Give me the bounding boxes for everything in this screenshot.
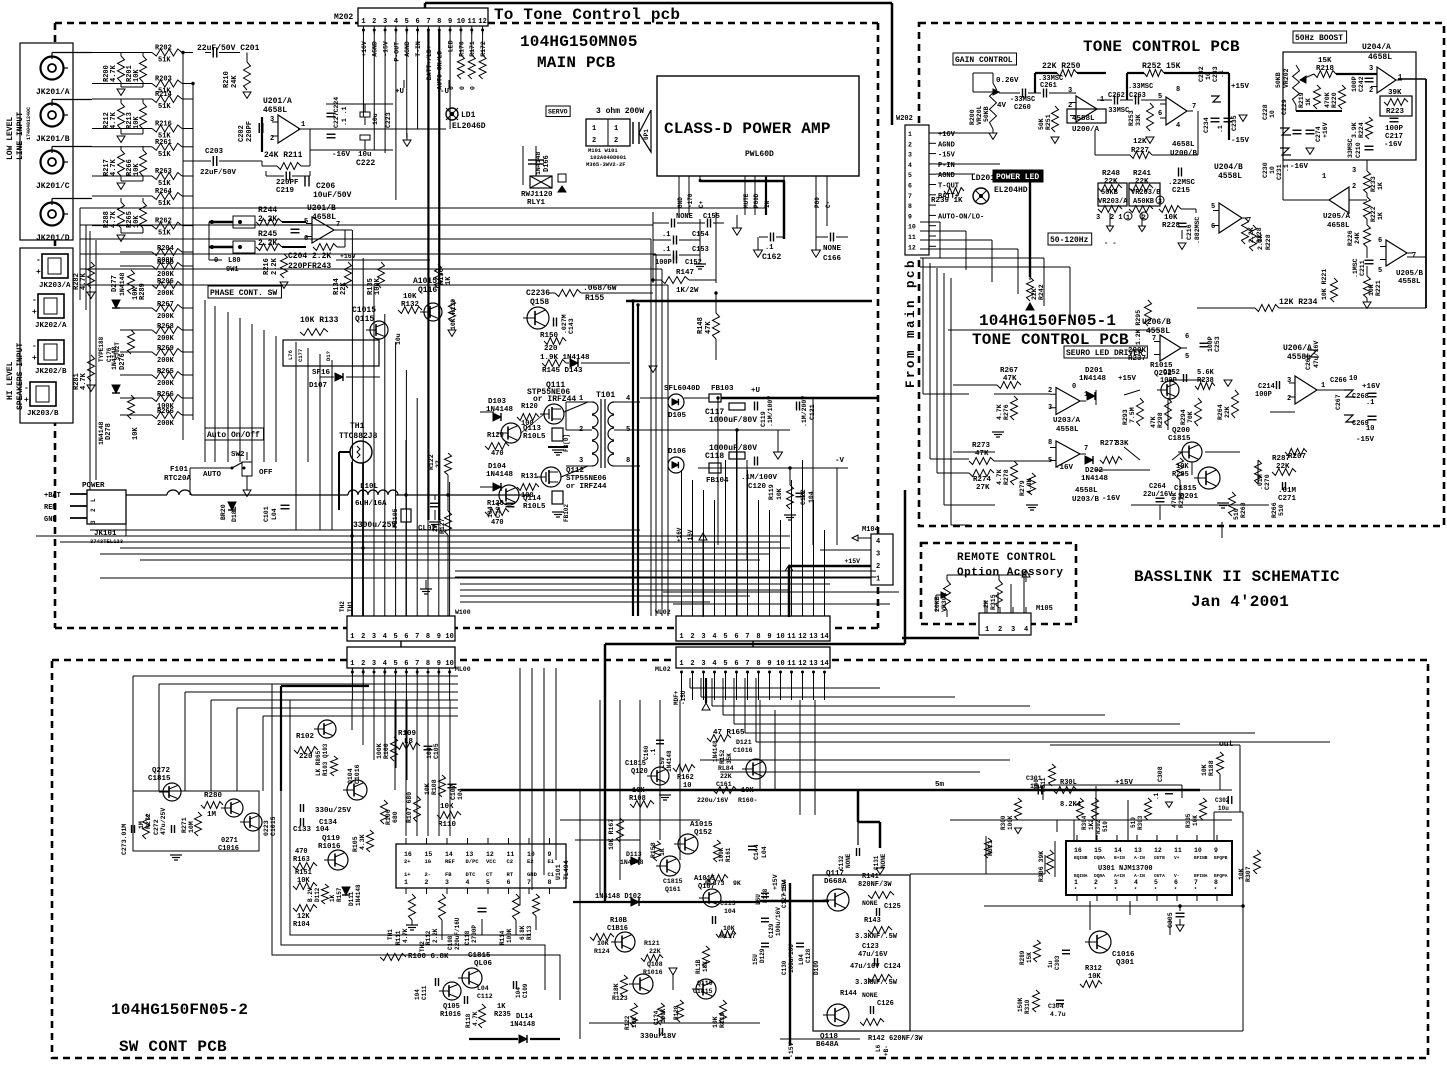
svg-text:1: 1 (1074, 879, 1078, 886)
svg-text:TH1: TH1 (387, 929, 394, 940)
svg-text:M202: M202 (334, 13, 353, 22)
svg-text:1: 1 (1322, 173, 1326, 181)
svg-text:10K R167: 10K R167 (608, 819, 615, 850)
svg-text:5: 5 (393, 660, 397, 668)
svg-text:R10B: R10B (610, 917, 628, 925)
svg-text:C2: C2 (507, 858, 514, 865)
svg-text:R202: R202 (155, 45, 172, 53)
svg-text:U203/B: U203/B (1072, 496, 1100, 504)
svg-text:C216: C216 (1186, 224, 1193, 240)
svg-text:4.7K: 4.7K (80, 272, 88, 290)
svg-text:RLY1: RLY1 (527, 199, 546, 207)
svg-text:BQINA: BQINA (1074, 873, 1088, 879)
svg-text:AUTO-ON/LD-: AUTO-ON/LD- (437, 47, 444, 90)
svg-text:-15V: -15V (383, 41, 390, 57)
svg-text:15K: 15K (1026, 952, 1033, 963)
svg-text:R305: R305 (1185, 813, 1192, 828)
svg-text:-16V: -16V (332, 151, 351, 159)
svg-text:2.2K: 2.2K (432, 928, 439, 943)
svg-text:C112: C112 (477, 993, 493, 1000)
svg-text:1: 1 (361, 18, 365, 26)
svg-text:104: 104 (724, 908, 736, 915)
svg-text:R239 1K: R239 1K (931, 197, 963, 205)
svg-text:200K: 200K (157, 290, 175, 298)
svg-text:9: 9 (908, 213, 912, 220)
svg-text:BR20: BR20 (220, 504, 227, 520)
svg-text:3: 3 (876, 551, 880, 559)
svg-text:SF16: SF16 (312, 369, 331, 377)
svg-text:6: 6 (1185, 333, 1189, 341)
svg-text:47K: 47K (1003, 375, 1017, 383)
svg-text:100K: 100K (1007, 815, 1014, 830)
svg-text:R122: R122 (428, 454, 435, 470)
svg-text:9: 9 (767, 660, 771, 668)
svg-text:C132: C132 (838, 855, 845, 870)
svg-text:330u/25V: 330u/25V (315, 807, 352, 815)
svg-text:LINE INPUT: LINE INPUT (16, 112, 25, 160)
svg-text:R310: R310 (1024, 999, 1031, 1014)
svg-text:FB102: FB102 (563, 504, 570, 522)
svg-text:C177: C177 (297, 349, 304, 362)
svg-text:3300u/25V: 3300u/25V (353, 521, 396, 530)
svg-text:DTC: DTC (466, 871, 477, 878)
svg-text:R160: R160 (383, 743, 390, 759)
svg-text:47u/16V: 47u/16V (858, 951, 888, 959)
svg-text:C1: C1 (548, 871, 555, 878)
svg-text:+16V: +16V (938, 131, 956, 139)
svg-text:3: 3 (701, 633, 705, 641)
svg-text:1740401240C: 1740401240C (26, 107, 32, 140)
svg-text:0: 0 (459, 86, 466, 90)
svg-text:4.7K: 4.7K (472, 1011, 479, 1026)
svg-text:Q202: Q202 (1154, 370, 1173, 378)
svg-text:1K: 1K (1377, 212, 1384, 220)
svg-text:50KB: 50KB (1101, 189, 1119, 197)
svg-text:.01M: .01M (1278, 487, 1297, 495)
svg-text:4658L: 4658L (1368, 53, 1392, 62)
svg-text:6: 6 (404, 633, 408, 641)
svg-text:4.7K: 4.7K (110, 158, 118, 176)
svg-text:C161: C161 (716, 781, 732, 788)
svg-text:-15V: -15V (1231, 137, 1250, 145)
svg-text:33MSC: 33MSC (1347, 138, 1354, 158)
svg-text:U301 NJM13700: U301 NJM13700 (1098, 865, 1153, 873)
svg-text:220: 220 (544, 345, 558, 353)
svg-text:8: 8 (426, 633, 430, 641)
svg-text:27K: 27K (976, 484, 990, 492)
svg-text:R271: R271 (181, 817, 188, 833)
svg-text:C101: C101 (263, 506, 270, 522)
svg-text:4558L: 4558L (1146, 327, 1170, 336)
svg-text:7: 7 (415, 633, 419, 641)
svg-text:4: 4 (466, 879, 470, 886)
svg-text:12: 12 (908, 244, 916, 251)
svg-text:22K: 22K (649, 948, 661, 955)
svg-text:3: 3 (908, 152, 912, 159)
svg-text:7.5M: 7.5M (1129, 407, 1136, 423)
svg-text:Q272: Q272 (152, 767, 171, 775)
svg-text:200K: 200K (157, 420, 175, 428)
svg-text:C219: C219 (276, 187, 295, 195)
svg-text:6: 6 (734, 660, 738, 668)
svg-text:2: 2 (90, 508, 97, 512)
svg-text:10K: 10K (440, 803, 454, 811)
svg-text:0P1: 0P1 (643, 129, 650, 140)
svg-text:12: 12 (798, 633, 806, 641)
svg-text:.1: .1 (1283, 164, 1290, 172)
svg-text:47u/25V: 47u/25V (160, 808, 167, 835)
svg-text:C162: C162 (762, 253, 781, 262)
svg-text:10M: 10M (188, 821, 195, 833)
svg-text:2: 2 (1287, 395, 1291, 403)
svg-text:0: 0 (470, 86, 477, 90)
svg-text:DL14: DL14 (516, 1013, 533, 1021)
svg-text:7: 7 (426, 18, 430, 26)
svg-text:DQRA: DQRA (1094, 873, 1105, 879)
svg-text:51K: 51K (158, 57, 171, 65)
svg-text:104HG150FN05-1: 104HG150FN05-1 (979, 312, 1116, 330)
svg-text:12K: 12K (297, 913, 310, 921)
svg-text:R207: R207 (1288, 453, 1306, 461)
svg-text:10K: 10K (776, 488, 783, 500)
svg-text:U205/A: U205/A (1323, 213, 1351, 221)
svg-text:R111: R111 (395, 930, 402, 945)
svg-text:14: 14 (820, 633, 828, 641)
svg-text:F101: F101 (170, 466, 189, 474)
svg-text:6: 6 (734, 633, 738, 641)
svg-text:2: 2 (876, 563, 880, 571)
svg-text:T-IN: T-IN (415, 41, 422, 57)
svg-text:10u: 10u (1218, 805, 1229, 812)
svg-text:R269: R269 (157, 345, 174, 353)
svg-text:C229: C229 (1281, 99, 1288, 115)
svg-text:C267: C267 (1335, 394, 1342, 410)
svg-text:220PFR243: 220PFR243 (288, 262, 331, 271)
svg-text:R244: R244 (258, 206, 277, 215)
svg-text:VR203/B: VR203/B (1131, 189, 1161, 197)
svg-text:AGND: AGND (938, 172, 955, 180)
svg-text:100P: 100P (1255, 391, 1272, 399)
svg-text:8: 8 (1048, 439, 1052, 447)
svg-text:D1?: D1? (325, 351, 332, 361)
svg-text:AUTO: AUTO (203, 471, 222, 479)
svg-text:R263: R263 (155, 168, 172, 176)
svg-text:2: 2 (592, 137, 596, 145)
svg-text:-16V: -16V (1384, 141, 1403, 149)
svg-text:SW CONT PCB: SW CONT PCB (119, 1038, 227, 1056)
svg-text:NONE: NONE (823, 245, 842, 253)
svg-text:QL06: QL06 (474, 960, 493, 968)
svg-text:104HG150FN05-2: 104HG150FN05-2 (111, 1001, 248, 1019)
svg-text:+15V: +15V (1118, 375, 1137, 383)
svg-text:Q108: Q108 (647, 961, 663, 968)
svg-text:Q120: Q120 (631, 768, 648, 776)
svg-text:1N4148: 1N4148 (510, 1021, 535, 1029)
svg-text:12: 12 (798, 660, 806, 668)
svg-text:6: 6 (404, 660, 408, 668)
svg-text:4658L: 4658L (312, 213, 336, 222)
svg-text:47K: 47K (975, 450, 989, 458)
svg-text:1N4148: 1N4148 (119, 272, 126, 296)
svg-text:R152: R152 (719, 749, 726, 764)
svg-text:47K: 47K (705, 321, 713, 334)
svg-text:REF: REF (445, 858, 455, 865)
svg-text:2: 2 (270, 135, 274, 143)
svg-text:To Tone Control pcb: To Tone Control pcb (494, 6, 680, 24)
svg-text:100u/16V: 100u/16V (775, 907, 782, 936)
svg-text:D201: D201 (1085, 367, 1104, 375)
svg-text:C153: C153 (692, 246, 709, 254)
svg-text:From main pcb: From main pcb (904, 258, 918, 388)
svg-text:C125: C125 (884, 903, 901, 911)
svg-text:TL494: TL494 (563, 860, 570, 880)
svg-text:R124: R124 (594, 948, 610, 955)
svg-text:39K: 39K (1388, 89, 1402, 97)
svg-text:R210: R210 (223, 71, 231, 88)
svg-text:R224: R224 (1358, 122, 1365, 138)
svg-text:22K: 22K (1135, 178, 1149, 186)
svg-text:U201/A: U201/A (263, 97, 292, 106)
svg-text:D166: D166 (543, 155, 551, 172)
svg-text:4.7K: 4.7K (996, 404, 1003, 420)
svg-text:0271: 0271 (221, 837, 238, 845)
svg-text:4V: 4V (997, 102, 1007, 110)
svg-text:R264: R264 (1217, 404, 1224, 420)
svg-text:12K: 12K (1133, 138, 1147, 146)
svg-text:12: 12 (1154, 847, 1162, 854)
svg-text:R248: R248 (1102, 170, 1121, 178)
svg-text:A+IN: A+IN (1114, 873, 1125, 879)
svg-text:C231: C231 (1276, 164, 1283, 180)
svg-text:11: 11 (787, 633, 795, 641)
svg-text:C160: C160 (643, 745, 650, 760)
svg-text:HI LEVEL: HI LEVEL (6, 361, 15, 400)
svg-text:U205/B: U205/B (1396, 270, 1424, 278)
svg-text:R312: R312 (1085, 965, 1102, 973)
svg-text:4.7u: 4.7u (1050, 1011, 1066, 1018)
svg-text:C120: C120 (748, 483, 767, 491)
svg-text:20KB: 20KB (934, 596, 941, 612)
svg-text:C1815: C1815 (1174, 485, 1197, 493)
svg-text:C202: C202 (238, 125, 246, 142)
svg-text:4558L: 4558L (1056, 426, 1079, 434)
svg-text:1: 1 (679, 633, 683, 641)
svg-text:OUTA: OUTA (1154, 873, 1165, 879)
svg-text:AGND: AGND (372, 41, 379, 57)
svg-text:C1015: C1015 (352, 306, 376, 315)
svg-text:TONE CONTROL PCB: TONE CONTROL PCB (1083, 38, 1240, 56)
svg-text:C1815: C1815 (1168, 435, 1191, 443)
svg-text:33K: 33K (1115, 440, 1129, 448)
svg-text:104: 104 (426, 747, 433, 759)
svg-text:C272: C272 (153, 819, 160, 835)
svg-text:M365-3WV2-2F: M365-3WV2-2F (586, 161, 626, 168)
svg-text:Q115: Q115 (355, 315, 374, 324)
svg-text:D/PC: D/PC (466, 858, 480, 865)
svg-text:OUTB: OUTB (1154, 855, 1165, 861)
svg-text:C1815: C1815 (468, 952, 491, 960)
svg-text:5: 5 (393, 633, 397, 641)
svg-text:M101 W101: M101 W101 (588, 147, 618, 154)
svg-text:9: 9 (437, 633, 441, 641)
svg-text:1.9K 1N4148: 1.9K 1N4148 (540, 354, 590, 362)
svg-text:REM: REM (44, 504, 57, 512)
svg-text:C235: C235 (1231, 115, 1238, 131)
svg-text:5: 5 (1154, 879, 1158, 886)
svg-text:+15V: +15V (772, 874, 779, 890)
svg-text:+16V: +16V (1362, 383, 1381, 391)
svg-text:510: 510 (1102, 821, 1109, 832)
svg-text:R147: R147 (676, 269, 694, 277)
svg-text:+16V: +16V (1322, 122, 1329, 138)
svg-text:L6U: L6U (755, 894, 762, 905)
svg-text:2: 2 (998, 626, 1002, 634)
svg-text:3: 3 (1158, 198, 1162, 205)
svg-text:LK R865: LK R865 (315, 750, 322, 776)
svg-text:7: 7 (527, 879, 531, 886)
svg-text:C123: C123 (862, 943, 879, 951)
svg-text:1: 1 (350, 660, 354, 668)
svg-text:B648A: B648A (816, 1041, 839, 1049)
svg-text:Q161: Q161 (665, 886, 681, 893)
svg-text:LED: LED (448, 40, 455, 52)
svg-text:R131: R131 (521, 473, 538, 481)
svg-text:*: * (1134, 887, 1137, 893)
svg-text:470: 470 (491, 519, 504, 527)
svg-text:5: 5 (405, 18, 409, 26)
svg-text:4: 4 (383, 660, 387, 668)
svg-text:L6: L6 (875, 1044, 882, 1052)
svg-text:4558L: 4558L (1075, 487, 1098, 495)
svg-text:RT: RT (507, 871, 514, 878)
svg-text:D112: D112 (314, 887, 321, 902)
svg-text:or IRFZ44: or IRFZ44 (533, 395, 576, 404)
svg-text:JK203/A: JK203/A (39, 282, 71, 290)
svg-text:JK201/B: JK201/B (36, 135, 70, 144)
svg-text:C130: C130 (781, 960, 788, 975)
svg-text:4558L: 4558L (1218, 172, 1242, 181)
svg-text:R112: R112 (425, 930, 432, 945)
svg-text:R228: R228 (1265, 234, 1272, 250)
svg-text:C266: C266 (1330, 377, 1347, 385)
svg-text:R306 39K: R306 39K (1038, 851, 1045, 882)
svg-text:5: 5 (723, 660, 727, 668)
svg-text:22uF/50V: 22uF/50V (200, 169, 237, 177)
svg-text:R160-: R160- (738, 797, 758, 804)
svg-text:4658L: 4658L (1172, 141, 1195, 149)
svg-text:C1016: C1016 (218, 845, 239, 853)
svg-text:820NF/3W: 820NF/3W (858, 881, 892, 889)
svg-text:4: 4 (1134, 879, 1138, 886)
svg-text:6: 6 (1158, 110, 1162, 118)
svg-text:E2: E2 (527, 858, 534, 865)
svg-text:LD201: LD201 (971, 174, 995, 183)
svg-text:C-: C- (825, 201, 832, 208)
svg-text:R237: R237 (1128, 355, 1146, 363)
svg-text:8: 8 (437, 18, 441, 26)
svg-text:C143: C143 (568, 318, 575, 334)
svg-text:C263: C263 (1129, 92, 1146, 100)
svg-text:POWER LED: POWER LED (996, 173, 1039, 182)
svg-text:R172: R172 (480, 41, 487, 57)
svg-text:R245: R245 (258, 230, 277, 239)
svg-text:-: - (32, 342, 37, 351)
svg-text:R279: R279 (1019, 480, 1026, 496)
svg-text:JK203/B: JK203/B (27, 410, 59, 418)
svg-text:R216: R216 (155, 121, 172, 129)
svg-text:D668A: D668A (824, 878, 847, 886)
svg-text:R216: R216 (263, 258, 271, 275)
svg-text:-: - (36, 256, 41, 265)
svg-text:10: 10 (776, 633, 784, 641)
svg-text:4.7K: 4.7K (80, 372, 88, 390)
svg-text:C230: C230 (1262, 162, 1269, 178)
svg-text:AUTO-ON/LO-: AUTO-ON/LO- (938, 213, 984, 221)
svg-text:4: 4 (712, 633, 716, 641)
svg-text:B+IN: B+IN (1114, 855, 1125, 861)
svg-text:7: 7 (415, 660, 419, 668)
svg-text:1: 1 (301, 121, 305, 129)
svg-text:R294: R294 (1180, 409, 1187, 425)
svg-text:.1: .1 (765, 244, 773, 252)
svg-text:REMOTE CONTROL: REMOTE CONTROL (957, 552, 1056, 564)
svg-text:13: 13 (1134, 847, 1142, 854)
svg-text:C128: C128 (805, 948, 812, 963)
svg-text:.1M/100V: .1M/100V (767, 396, 774, 427)
svg-text:RL1B: RL1B (695, 959, 702, 974)
svg-text:9: 9 (1214, 847, 1218, 854)
svg-text:R268: R268 (157, 323, 174, 331)
svg-text:10: 10 (527, 851, 535, 858)
svg-text:5: 5 (486, 879, 490, 886)
svg-text:R104: R104 (293, 921, 310, 929)
svg-text:1: 1 (404, 879, 408, 886)
svg-text:4: 4 (712, 660, 716, 668)
svg-text:C107: C107 (450, 784, 457, 800)
svg-text:3: 3 (1287, 377, 1291, 385)
svg-text:104: 104 (487, 506, 494, 518)
svg-text:R1016: R1016 (440, 1011, 461, 1019)
svg-text:220PF: 220PF (276, 179, 299, 187)
svg-text:PHASE CONT. SW: PHASE CONT. SW (210, 289, 277, 298)
svg-text:-15V: -15V (788, 1042, 795, 1058)
svg-text:R171: R171 (469, 41, 476, 57)
svg-text:-15V: -15V (938, 152, 956, 160)
svg-text:10: 10 (1269, 166, 1276, 174)
svg-text:1000uF/80V: 1000uF/80V (709, 416, 757, 425)
svg-text:C1016: C1016 (733, 747, 753, 754)
svg-text:SW2: SW2 (231, 451, 245, 459)
svg-text:C214: C214 (1258, 383, 1275, 391)
svg-text:R241: R241 (1133, 170, 1152, 178)
svg-text:R222: R222 (1370, 206, 1377, 222)
svg-text:7: 7 (908, 193, 912, 200)
svg-text:R170: R170 (458, 41, 465, 57)
svg-text:2700P: 2700P (471, 925, 478, 943)
svg-text:220u/16V: 220u/16V (697, 797, 728, 804)
svg-text:5m: 5m (935, 781, 945, 789)
svg-text:L04: L04 (761, 846, 768, 858)
svg-text:4558L: 4558L (1398, 278, 1421, 286)
svg-text:51K: 51K (158, 200, 171, 208)
svg-text:5.6K: 5.6K (1197, 369, 1215, 377)
svg-text:R10L5: R10L5 (523, 433, 546, 441)
svg-text:+16V: +16V (676, 527, 683, 542)
svg-text:3.3KNF/.5W: 3.3KNF/.5W (855, 933, 898, 941)
svg-text:47K: 47K (1150, 416, 1157, 428)
svg-text:5: 5 (1185, 353, 1189, 361)
svg-text:C118: C118 (464, 930, 471, 945)
